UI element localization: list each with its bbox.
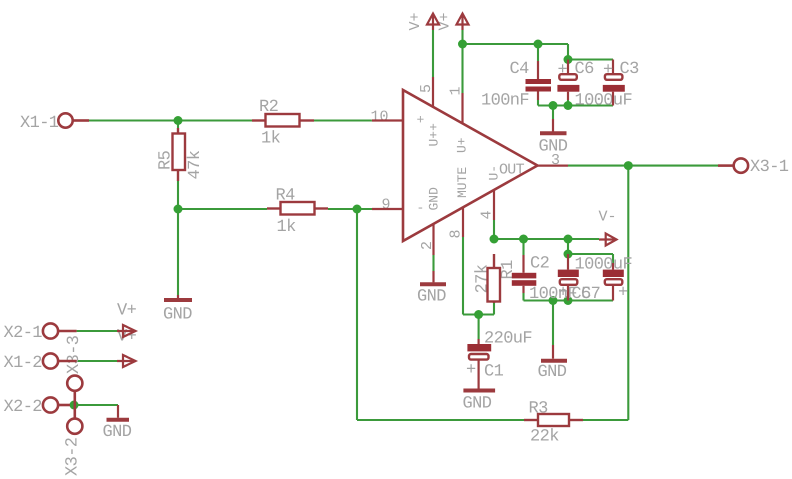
junction node E [564, 55, 573, 64]
wire C6 bottom [567, 100, 569, 106]
ground GND2 [541, 345, 567, 361]
svg-text:10: 10 [371, 109, 389, 126]
capacitor C1 [466, 339, 491, 389]
wire OUT to X3-1 [568, 165, 718, 167]
connector X1-1 pad [58, 113, 72, 127]
resistor R1 [488, 254, 501, 303]
op-amp pin 1 stub [461, 93, 463, 123]
connector X3-3 pad [67, 376, 82, 391]
svg-text:X2-1: X2-1 [4, 324, 43, 343]
op-amp U1 triangle [403, 90, 538, 241]
svg-text:220uF: 220uF [484, 330, 532, 349]
junction GND2 tap [549, 296, 558, 305]
wire R2 to pin10 [314, 119, 372, 121]
supply V+ arrow 1 top [427, 14, 439, 31]
ground GND4 below pin2 [420, 271, 446, 284]
svg-text:GND: GND [427, 187, 442, 211]
svg-text:GND: GND [103, 423, 132, 442]
junction GND1 tap [549, 101, 558, 110]
svg-text:V+: V+ [437, 12, 454, 30]
wire R3 to corner [583, 419, 628, 421]
svg-text:C1: C1 [484, 363, 504, 382]
junction node C [353, 205, 362, 214]
wire V+ supply2 to node D [461, 30, 463, 93]
svg-text:C4: C4 [510, 60, 530, 79]
op-amp pin 2 stub [432, 224, 434, 255]
wire V+ supply1 to pin5 [432, 30, 434, 77]
capacitor C2 [512, 273, 537, 286]
junction node B [174, 205, 183, 214]
svg-text:X3-2: X3-2 [64, 438, 83, 476]
svg-text:GND: GND [539, 138, 568, 157]
svg-text:X3-1: X3-1 [750, 158, 789, 177]
supply V+ arrow 2 top [457, 14, 469, 31]
wire node B to R4 [178, 208, 267, 210]
supply V+ arrow bottom left 2 [117, 355, 136, 367]
svg-text:+: + [618, 284, 628, 303]
wire R1 bottom up [493, 303, 495, 315]
svg-text:V+: V+ [117, 302, 137, 321]
op-amp pin 10 stub [372, 119, 403, 121]
wire pin8 to R1 bottom [463, 313, 494, 315]
svg-text:+: + [466, 361, 476, 380]
svg-text:+: + [558, 61, 568, 80]
svg-text:-: - [417, 201, 425, 216]
connector X3-1 pad [734, 158, 748, 172]
wire bottom to R3 [357, 419, 524, 421]
op-amp pin 3 OUT stub [538, 165, 569, 167]
wire node F drop [567, 239, 569, 254]
wire node E to C3 top [568, 58, 613, 60]
connector X2-2 pad [43, 397, 58, 412]
op-amp pin 5 stub [432, 77, 434, 107]
connector X3-2 pad [67, 419, 82, 434]
wire node B to GND5 [177, 209, 179, 295]
capacitor C6 [557, 60, 579, 101]
wire node F to C7 top [568, 253, 613, 255]
capacitor C3 [603, 60, 625, 106]
op-amp pin 9 stub [372, 208, 403, 210]
wire X2-2 node G to GND6 [70, 404, 118, 406]
wire bottom bus of C2 C5 C7 [524, 299, 614, 301]
ground GND3 below C1 [463, 389, 495, 393]
wire pin8 down [462, 237, 464, 315]
wire C7 top green part [612, 254, 614, 263]
svg-text:1k: 1k [261, 130, 281, 149]
wire to GND2 [552, 301, 554, 346]
wire X1-1 to node A [89, 119, 252, 121]
junction C6 bottom [564, 101, 573, 110]
junction C2 top [519, 235, 528, 244]
svg-text:X2-2: X2-2 [4, 398, 42, 417]
wire R5 bottom to node B [177, 181, 179, 209]
svg-text:GND: GND [463, 395, 492, 414]
wire node D to node E top bus [463, 43, 569, 45]
svg-text:X1-2: X1-2 [4, 354, 42, 373]
svg-text:GND: GND [163, 306, 192, 325]
connector X2-1 pad [43, 323, 58, 338]
wire C2 bottom [522, 293, 524, 301]
wire V- bus [494, 238, 599, 240]
svg-text:+: + [417, 113, 425, 128]
resistor R3 [524, 414, 583, 426]
svg-text:GND: GND [417, 288, 446, 307]
wire X1-2 to V+ arrow2 [77, 360, 122, 362]
wire node C down feedback [356, 209, 358, 420]
connector X1-2 pad [43, 353, 58, 368]
svg-text:U++: U++ [427, 123, 442, 147]
svg-text:22k: 22k [530, 428, 559, 447]
op-amp pin 8 stub [462, 208, 464, 238]
svg-text:C2: C2 [530, 255, 549, 274]
svg-text:V+: V+ [407, 12, 424, 30]
junction node F lower [564, 250, 573, 259]
wire C4 bottom [537, 100, 539, 106]
svg-text:100nF: 100nF [529, 285, 577, 304]
capacitor C4 [526, 79, 552, 92]
resistor R4 [267, 202, 328, 215]
wire pin4 to V- bus [493, 220, 495, 239]
junction node D [458, 40, 467, 49]
junction node A [174, 116, 183, 125]
wire bottom bus of C4 C6 C3 [538, 104, 613, 106]
supply V+ arrow bottom left 1 [117, 325, 136, 337]
svg-text:V-: V- [599, 209, 617, 226]
wire to GND1 [552, 106, 554, 120]
svg-text:9: 9 [382, 197, 391, 214]
svg-text:X3-3: X3-3 [65, 335, 84, 374]
wire pin2 to GND4 [432, 255, 434, 271]
wire node A to R5 top [177, 121, 179, 129]
svg-text:1k: 1k [277, 218, 297, 237]
wire C1 top [478, 315, 480, 340]
op-amp pin 4 stub [493, 190, 495, 220]
MAROON COMPONENTS [372, 77, 568, 255]
svg-text:MUTE: MUTE [455, 167, 470, 198]
svg-text:C7: C7 [581, 285, 600, 304]
junction node F [564, 235, 573, 244]
capacitor C7 [603, 263, 628, 303]
svg-text:1000uF: 1000uF [575, 92, 633, 111]
wire top bus to C4 [537, 44, 539, 61]
junction C1 top node [474, 310, 483, 319]
ground GND5 below R5 node [164, 295, 192, 300]
resistor R5 [173, 128, 186, 181]
svg-text:X1-1: X1-1 [20, 114, 59, 133]
svg-text:GND: GND [538, 363, 567, 382]
wire C2 top [522, 239, 524, 255]
junction OUT node [624, 161, 633, 170]
svg-text:47k: 47k [186, 150, 205, 179]
wire node E corner down [567, 44, 569, 60]
junction C4 top [534, 40, 543, 49]
resistor R2 [252, 114, 314, 127]
ground GND6 bottom left [107, 405, 130, 420]
junction pin4 R1 [490, 235, 499, 244]
svg-text:+: + [603, 61, 613, 80]
wire R4 to node C [328, 208, 372, 210]
junction C5 bottom [564, 296, 573, 305]
svg-text:+: + [558, 284, 568, 303]
svg-text:U+: U+ [455, 137, 470, 153]
supply V- arrow [599, 234, 617, 246]
svg-text:100nF: 100nF [481, 92, 529, 111]
wire feedback vertical right [627, 166, 629, 420]
wire X2-1 to V+ arrow [77, 330, 122, 332]
junction node G [70, 401, 79, 410]
capacitor C5 [558, 254, 579, 303]
ground GND1 [540, 119, 567, 133]
